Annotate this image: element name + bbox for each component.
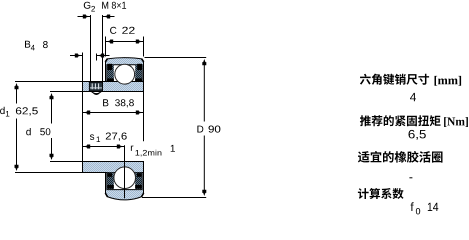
label r 1,2min 1 (131, 146, 134, 151)
label D 90 (197, 126, 203, 133)
seal bottom-left (107, 173, 114, 190)
center line bottom (124, 145, 126, 198)
s1 dimension (83, 146, 125, 148)
seal top-left (107, 65, 114, 82)
label M 8x1 (102, 2, 126, 9)
panel row2 unit [Nm] (444, 117, 468, 127)
panel row3 label CJK (358, 151, 443, 163)
left extension line (82, 53, 84, 162)
d dimension (51, 96, 53, 124)
ball top (115, 64, 135, 84)
panel row4 label CJK (358, 188, 404, 199)
G2 dimension (78, 16, 91, 18)
inner-ring sleeve top (83, 82, 144, 92)
top corner chamfer accents (105, 59, 107, 62)
label d1 62,5 (0, 107, 5, 114)
inner-ring sleeve bottom (83, 162, 144, 173)
panel row2 value 6,5 (409, 130, 426, 140)
label B 38,8 (103, 99, 108, 106)
panel row3 value dash (409, 177, 412, 178)
label s1 27,6 (90, 134, 94, 140)
B4 dimension (70, 55, 83, 57)
panel row2 label CJK (360, 115, 441, 126)
panel row1 value 4 (410, 93, 416, 101)
seal top-right (135, 65, 142, 82)
seal bottom-right (135, 173, 142, 190)
outer ring bottom (106, 173, 144, 200)
label B4 8 (25, 41, 30, 48)
label C 22 (110, 27, 116, 34)
C dimension (106, 41, 144, 43)
ball bottom (114, 167, 136, 189)
D dimension (203, 62, 205, 122)
panel row4 value f0 14 (411, 202, 414, 211)
outer ring top (106, 58, 144, 82)
label d 50 (26, 128, 31, 135)
bottom corner chamfer accents (105, 193, 107, 197)
d1 dimension (16, 87, 18, 104)
grub screw (89, 82, 102, 91)
label G2 (84, 2, 91, 9)
B dimension (83, 112, 144, 114)
panel row1 unit [mm] (435, 76, 462, 86)
panel row1 label CJK (360, 74, 429, 85)
right extension line (143, 92, 145, 141)
